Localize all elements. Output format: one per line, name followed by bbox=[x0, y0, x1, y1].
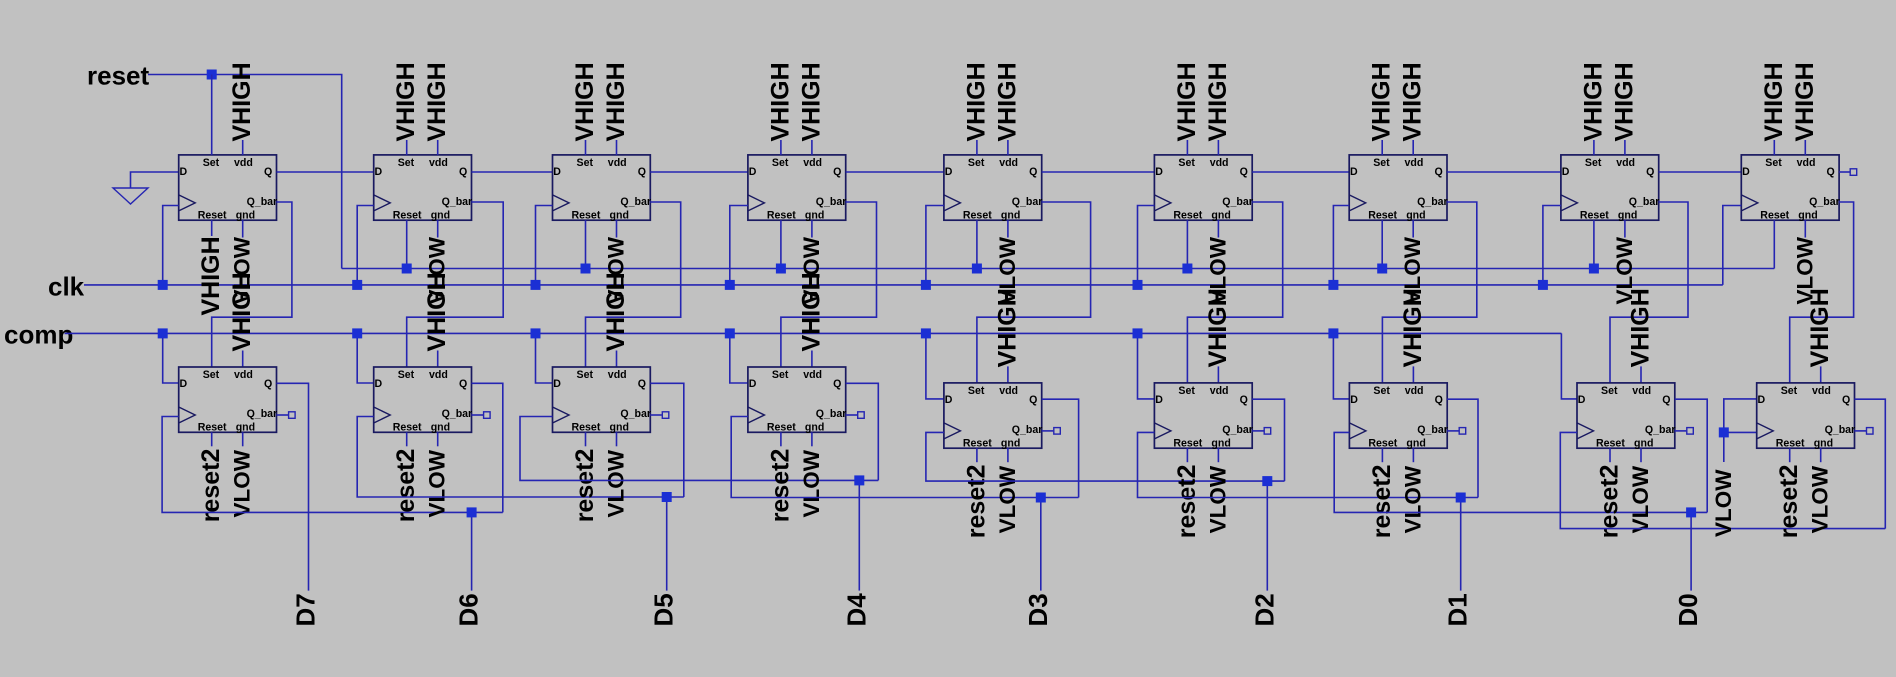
wire U3 Q to U4 D bbox=[650, 171, 748, 173]
svg-text:VHIGH: VHIGH bbox=[1610, 62, 1638, 141]
unconnected pin marker U15 Q_bar bbox=[1264, 428, 1271, 435]
junction reset/U7 bbox=[1377, 264, 1387, 274]
svg-text:gnd: gnd bbox=[1406, 437, 1425, 449]
wire U7 Q_bar to U16 Set bbox=[1382, 202, 1476, 383]
wire U16 vdd pin stub to VHIGH bbox=[1412, 366, 1414, 383]
wire output D0 drop bbox=[1690, 512, 1692, 590]
wire U17 Q_bar stub (unconnected) bbox=[1675, 430, 1687, 432]
svg-text:gnd: gnd bbox=[1634, 437, 1653, 449]
U13 (bottom row, bit 4) pin labels Set vdd D Q Q_bar Reset gnd bbox=[749, 369, 847, 433]
junction clk/U1 bbox=[158, 280, 168, 290]
svg-text:Set: Set bbox=[577, 157, 594, 169]
wire U8 Q to U9 D bbox=[1659, 171, 1742, 173]
svg-text:Q: Q bbox=[1029, 166, 1037, 178]
flip-flop U17 (bottom row, bit 0) bbox=[1577, 383, 1675, 448]
svg-text:gnd: gnd bbox=[431, 209, 450, 221]
wire U4 vdd pin stub to VHIGH bbox=[811, 140, 813, 155]
wire U13 vdd pin stub to VHIGH bbox=[811, 351, 813, 368]
svg-text:Q_bar: Q_bar bbox=[620, 408, 651, 420]
wire U8 gnd pin stub to VLOW bbox=[1624, 220, 1626, 237]
svg-text:VHIGH: VHIGH bbox=[993, 288, 1021, 367]
wire U18 vdd pin stub to VHIGH bbox=[1820, 366, 1822, 383]
svg-text:Q_bar: Q_bar bbox=[1645, 424, 1676, 436]
svg-text:reset2: reset2 bbox=[392, 449, 420, 523]
svg-text:gnd: gnd bbox=[1814, 437, 1833, 449]
svg-text:vdd: vdd bbox=[999, 385, 1018, 397]
wire U18 D tied to clock pin and VLOW bbox=[1724, 399, 1757, 462]
flip-flop U18 (bottom row, bit end) bbox=[1757, 383, 1855, 448]
svg-text:Q_bar: Q_bar bbox=[620, 196, 651, 208]
svg-text:Reset: Reset bbox=[198, 421, 227, 433]
svg-text:VHIGH: VHIGH bbox=[962, 62, 990, 141]
wire U15 vdd pin stub to VHIGH bbox=[1217, 366, 1219, 383]
U14 (bottom row, bit 3) pin labels Set vdd D Q Q_bar Reset gnd bbox=[945, 385, 1043, 449]
svg-text:Q: Q bbox=[1646, 166, 1654, 178]
svg-text:Set: Set bbox=[968, 385, 985, 397]
svg-text:Q_bar: Q_bar bbox=[816, 196, 847, 208]
svg-text:vdd: vdd bbox=[1405, 157, 1424, 169]
wire U7 Reset pin to reset rail bbox=[1381, 220, 1383, 268]
svg-text:vdd: vdd bbox=[608, 157, 627, 169]
svg-text:Set: Set bbox=[398, 369, 415, 381]
svg-text:vdd: vdd bbox=[234, 157, 253, 169]
wire U14 gnd pin stub to VLOW bbox=[1007, 448, 1009, 462]
svg-text:vdd: vdd bbox=[1210, 157, 1229, 169]
wire U9 Set pin stub to VHIGH bbox=[1773, 140, 1775, 155]
flip-flop U16 (bottom row, bit 1) bbox=[1349, 383, 1447, 448]
wire U15 clock pin to ripple rail from U16 Q bbox=[1138, 432, 1479, 497]
svg-text:gnd: gnd bbox=[431, 421, 450, 433]
svg-text:D: D bbox=[1562, 166, 1570, 178]
wire U15 Q down to ripple rail bbox=[1252, 399, 1284, 481]
svg-text:gnd: gnd bbox=[1798, 209, 1817, 221]
junction reset/Set1 bbox=[207, 70, 217, 80]
wire comp rail to U11 D bbox=[357, 333, 374, 383]
wire U15 Reset pin stub to reset2 bbox=[1186, 448, 1188, 462]
junction comp/U12 bbox=[531, 328, 541, 338]
svg-text:D: D bbox=[945, 394, 953, 406]
svg-text:VHIGH: VHIGH bbox=[228, 62, 256, 141]
svg-text:gnd: gnd bbox=[1001, 437, 1020, 449]
svg-text:gnd: gnd bbox=[236, 209, 255, 221]
svg-text:Reset: Reset bbox=[1760, 209, 1789, 221]
wire U4 Q to U5 D bbox=[846, 171, 944, 173]
svg-text:Q: Q bbox=[638, 166, 646, 178]
svg-text:Q: Q bbox=[833, 378, 841, 390]
svg-text:gnd: gnd bbox=[236, 421, 255, 433]
junction clk/U3 bbox=[531, 280, 541, 290]
junction reset/U5 bbox=[972, 264, 982, 274]
svg-text:Set: Set bbox=[772, 157, 789, 169]
wire U17 Reset pin stub to reset2 bbox=[1609, 448, 1611, 462]
svg-text:Q_bar: Q_bar bbox=[816, 408, 847, 420]
svg-text:Reset: Reset bbox=[767, 421, 796, 433]
wire U10 Q to output D7 bbox=[277, 383, 309, 590]
svg-text:Reset: Reset bbox=[963, 437, 992, 449]
svg-text:Set: Set bbox=[203, 369, 220, 381]
wire U5 vdd pin stub to VHIGH bbox=[1007, 140, 1009, 155]
svg-text:Set: Set bbox=[1765, 157, 1782, 169]
svg-text:vdd: vdd bbox=[608, 369, 627, 381]
junction comp/U14 bbox=[921, 328, 931, 338]
wire U8 vdd pin stub to VHIGH bbox=[1624, 140, 1626, 155]
flip-flop U2 (top row, bit 6) bbox=[374, 155, 472, 220]
flip-flop U8 (top row, bit 0) bbox=[1561, 155, 1659, 220]
flip-flop U10 (bottom row, bit 7) bbox=[179, 367, 277, 432]
junction clk/U7 bbox=[1328, 280, 1338, 290]
svg-text:reset2: reset2 bbox=[1368, 465, 1396, 539]
svg-text:Reset: Reset bbox=[963, 209, 992, 221]
svg-text:VHIGH: VHIGH bbox=[1399, 288, 1427, 367]
svg-text:D: D bbox=[945, 166, 953, 178]
wire U4 Set pin stub to VHIGH bbox=[780, 140, 782, 155]
junction clk/U5 bbox=[921, 280, 931, 290]
wire U7 Q to U8 D bbox=[1447, 171, 1561, 173]
wire U7 Set pin stub to VHIGH bbox=[1381, 140, 1383, 155]
svg-text:D: D bbox=[1155, 166, 1163, 178]
wire U1 Reset pin stub to VHIGH bbox=[211, 220, 213, 236]
flip-flop U1 (top row, bit 7) bbox=[179, 155, 277, 220]
wire output D5 drop bbox=[666, 497, 668, 591]
wire U4 gnd pin stub to VLOW bbox=[811, 220, 813, 237]
wire U12 clock pin to ripple rail from U13 Q bbox=[520, 417, 878, 481]
svg-text:vdd: vdd bbox=[1632, 385, 1651, 397]
U11 (bottom row, bit 6) pin labels Set vdd D Q Q_bar Reset gnd bbox=[375, 369, 473, 433]
svg-text:VHIGH: VHIGH bbox=[1627, 288, 1655, 367]
unconnected pin marker U16 Q_bar bbox=[1459, 428, 1466, 435]
wire output D4 drop bbox=[858, 480, 860, 590]
svg-text:D6: D6 bbox=[454, 593, 484, 626]
wire U16 Q_bar stub (unconnected) bbox=[1447, 430, 1459, 432]
flip-flop U15 (bottom row, bit 2) bbox=[1154, 383, 1252, 448]
wire U8 Reset pin to reset rail bbox=[1593, 220, 1595, 268]
svg-text:VLOW: VLOW bbox=[1205, 465, 1230, 533]
wire U10 gnd pin stub to VLOW bbox=[242, 432, 244, 446]
flip-flop U4 (top row, bit 4) bbox=[748, 155, 846, 220]
svg-text:D: D bbox=[375, 166, 383, 178]
flip-flop U12 (bottom row, bit 5) bbox=[553, 367, 651, 432]
svg-text:gnd: gnd bbox=[610, 209, 629, 221]
svg-text:Set: Set bbox=[968, 157, 985, 169]
wire U8 Set pin stub to VHIGH bbox=[1593, 140, 1595, 155]
svg-text:Q_bar: Q_bar bbox=[247, 196, 278, 208]
svg-text:Reset: Reset bbox=[1368, 437, 1397, 449]
U8 (top row, bit 0) pin labels Set vdd D Q Q_bar Reset gnd bbox=[1562, 157, 1660, 221]
unconnected pin marker U11 Q_bar bbox=[484, 412, 491, 419]
wire U15 Q_bar stub (unconnected) bbox=[1252, 430, 1264, 432]
svg-text:VHIGH: VHIGH bbox=[1368, 62, 1396, 141]
junction comp/U11 bbox=[352, 328, 362, 338]
wire U14 Reset pin stub to reset2 bbox=[976, 448, 978, 462]
svg-text:D: D bbox=[749, 166, 757, 178]
wire U5 Q_bar to U14 Set bbox=[977, 202, 1091, 383]
U12 (bottom row, bit 5) pin labels Set vdd D Q Q_bar Reset gnd bbox=[553, 369, 651, 433]
svg-text:D: D bbox=[180, 378, 188, 390]
svg-text:gnd: gnd bbox=[1001, 209, 1020, 221]
wire U1 Set pin up to reset net bbox=[211, 75, 213, 155]
svg-text:VHIGH: VHIGH bbox=[1760, 62, 1788, 141]
wire U6 Set pin stub to VHIGH bbox=[1186, 140, 1188, 155]
svg-text:Set: Set bbox=[772, 369, 789, 381]
junction clk/U4 bbox=[725, 280, 735, 290]
U16 (bottom row, bit 1) pin labels Set vdd D Q Q_bar Reset gnd bbox=[1350, 385, 1448, 449]
svg-text:Set: Set bbox=[1373, 385, 1390, 397]
svg-text:VHIGH: VHIGH bbox=[423, 272, 451, 351]
svg-text:vdd: vdd bbox=[429, 157, 448, 169]
svg-text:Q_bar: Q_bar bbox=[1417, 196, 1448, 208]
svg-text:Q: Q bbox=[1662, 394, 1670, 406]
svg-text:D: D bbox=[1578, 394, 1586, 406]
wire U18 Q_bar stub (unconnected) bbox=[1855, 430, 1867, 432]
wire U10 clock pin to ripple rail from U11 Q bbox=[162, 417, 503, 513]
wire U18 Q down to ripple rail bbox=[1855, 399, 1886, 528]
svg-text:Q_bar: Q_bar bbox=[1012, 196, 1043, 208]
svg-text:vdd: vdd bbox=[1405, 385, 1424, 397]
svg-text:VHIGH: VHIGH bbox=[1204, 288, 1232, 367]
svg-text:vdd: vdd bbox=[429, 369, 448, 381]
wire U4 Reset pin to reset rail bbox=[780, 220, 782, 268]
wire U9 gnd pin stub to VLOW bbox=[1804, 220, 1806, 237]
wire U7 gnd pin stub to VLOW bbox=[1412, 220, 1414, 237]
svg-text:D: D bbox=[553, 378, 561, 390]
svg-text:reset2: reset2 bbox=[962, 465, 990, 539]
U7 (top row, bit 1) pin labels Set vdd D Q Q_bar Reset gnd bbox=[1350, 157, 1448, 221]
wire U5 gnd pin stub to VLOW bbox=[1007, 220, 1009, 237]
junction D0 bbox=[1686, 507, 1696, 517]
junction D1 bbox=[1456, 493, 1466, 503]
junction clk/U2 bbox=[352, 280, 362, 290]
svg-text:VHIGH: VHIGH bbox=[392, 62, 420, 141]
wire clk rail to U7 clock pin bbox=[1333, 206, 1349, 285]
svg-text:Q_bar: Q_bar bbox=[442, 408, 473, 420]
svg-text:VLOW: VLOW bbox=[604, 449, 629, 517]
svg-text:Set: Set bbox=[398, 157, 415, 169]
svg-text:D: D bbox=[1155, 394, 1163, 406]
svg-text:Q_bar: Q_bar bbox=[442, 196, 473, 208]
svg-text:reset2: reset2 bbox=[571, 449, 599, 523]
junction comp/U15 bbox=[1133, 328, 1143, 338]
wire U14 Q down to ripple rail bbox=[1042, 399, 1079, 497]
U15 (bottom row, bit 2) pin labels Set vdd D Q Q_bar Reset gnd bbox=[1155, 385, 1253, 449]
junction reset/U2 bbox=[402, 264, 412, 274]
wire U13 gnd pin stub to VLOW bbox=[811, 432, 813, 446]
svg-text:VHIGH: VHIGH bbox=[797, 62, 825, 141]
junction comp/U13 bbox=[725, 328, 735, 338]
wire clk rail to U8 clock pin bbox=[1543, 206, 1561, 285]
wire U11 Q_bar stub (unconnected) bbox=[472, 414, 484, 416]
wire clk rail to U9 clock pin bbox=[1723, 206, 1742, 285]
wire U2 vdd pin stub to VHIGH bbox=[437, 140, 439, 155]
wire U12 Q down to ripple rail bbox=[650, 383, 684, 497]
svg-text:VHIGH: VHIGH bbox=[1204, 62, 1232, 141]
wire U9 Reset pin to reset rail end bbox=[1773, 220, 1775, 268]
junction reset/U6 bbox=[1182, 264, 1192, 274]
svg-text:VHIGH: VHIGH bbox=[766, 62, 794, 141]
svg-text:Reset: Reset bbox=[767, 209, 796, 221]
svg-text:VHIGH: VHIGH bbox=[423, 62, 451, 141]
svg-text:D2: D2 bbox=[1249, 593, 1279, 626]
flip-flop U7 (top row, bit 1) bbox=[1349, 155, 1447, 220]
wire U13 clock pin to ripple rail from U14 Q bbox=[731, 417, 1078, 498]
svg-text:VLOW: VLOW bbox=[1628, 465, 1653, 533]
wire U5 Reset pin to reset rail bbox=[976, 220, 978, 268]
svg-text:reset2: reset2 bbox=[766, 449, 794, 523]
wire U9 vdd pin stub to VHIGH bbox=[1804, 140, 1806, 155]
wire U2 gnd pin stub to VLOW bbox=[437, 220, 439, 237]
wire U2 Q to U3 D bbox=[472, 171, 553, 173]
wire clk rail to U1 clock pin bbox=[163, 206, 179, 285]
wire U3 gnd pin stub to VLOW bbox=[616, 220, 618, 237]
wire U8 Q_bar to U17 Set bbox=[1610, 202, 1688, 383]
svg-text:D5: D5 bbox=[649, 593, 679, 626]
svg-text:VHIGH: VHIGH bbox=[1579, 62, 1607, 141]
wire U14 Q_bar stub (unconnected) bbox=[1042, 430, 1054, 432]
unconnected pin marker U13 Q_bar bbox=[858, 412, 865, 419]
svg-text:VLOW: VLOW bbox=[230, 449, 255, 517]
svg-text:D: D bbox=[1350, 394, 1358, 406]
wire U4 Q_bar to U13 Set bbox=[781, 202, 877, 367]
svg-text:Q_bar: Q_bar bbox=[1825, 424, 1856, 436]
junction D4 bbox=[854, 475, 864, 485]
svg-text:VHIGH: VHIGH bbox=[571, 62, 599, 141]
wire comp rail to U10 D bbox=[163, 333, 179, 383]
svg-text:Q: Q bbox=[264, 378, 272, 390]
junction D6 bbox=[467, 507, 477, 517]
wire U14 clock pin to ripple rail from U15 Q bbox=[926, 432, 1285, 481]
wire comp rail bbox=[65, 332, 1562, 334]
wire U5 Q to U6 D bbox=[1042, 171, 1155, 173]
svg-text:Set: Set bbox=[1601, 385, 1618, 397]
svg-text:Q_bar: Q_bar bbox=[1222, 196, 1253, 208]
wire U17 vdd pin stub to VHIGH bbox=[1640, 366, 1642, 383]
flip-flop U11 (bottom row, bit 6) bbox=[374, 367, 472, 432]
U18 (bottom row, bit end) pin labels Set vdd D Q Q_bar Reset gnd bbox=[1758, 385, 1856, 449]
svg-text:reset2: reset2 bbox=[1173, 465, 1201, 539]
svg-text:VHIGH: VHIGH bbox=[1791, 62, 1819, 141]
wire U3 Set pin stub to VHIGH bbox=[585, 140, 587, 155]
flip-flop U6 (top row, bit 2) bbox=[1154, 155, 1252, 220]
svg-text:VLOW: VLOW bbox=[1711, 469, 1736, 537]
svg-text:vdd: vdd bbox=[1797, 157, 1816, 169]
unconnected pin marker U9 Q bbox=[1850, 169, 1857, 176]
svg-text:VLOW: VLOW bbox=[1400, 465, 1425, 533]
svg-text:Q: Q bbox=[833, 166, 841, 178]
wire U12 vdd pin stub to VHIGH bbox=[616, 351, 618, 368]
svg-text:vdd: vdd bbox=[1616, 157, 1635, 169]
svg-text:Reset: Reset bbox=[1173, 437, 1202, 449]
svg-text:VHIGH: VHIGH bbox=[602, 272, 630, 351]
wire U10 vdd pin stub to VHIGH bbox=[242, 351, 244, 368]
svg-text:Q: Q bbox=[1842, 394, 1850, 406]
svg-text:D: D bbox=[180, 166, 188, 178]
flip-flop U14 (bottom row, bit 3) bbox=[944, 383, 1042, 448]
svg-text:reset2: reset2 bbox=[197, 449, 225, 523]
svg-text:gnd: gnd bbox=[1211, 209, 1230, 221]
wire U10 Reset pin stub to reset2 bbox=[211, 432, 213, 446]
wire U12 gnd pin stub to VLOW bbox=[616, 432, 618, 446]
wire comp rail to U15 D bbox=[1138, 333, 1155, 399]
svg-text:Q: Q bbox=[1240, 166, 1248, 178]
wire reset rail bbox=[342, 268, 1775, 270]
unconnected pin marker U17 Q_bar bbox=[1687, 428, 1694, 435]
svg-text:Reset: Reset bbox=[198, 209, 227, 221]
svg-text:Q_bar: Q_bar bbox=[1417, 424, 1448, 436]
junction clk/U6 bbox=[1133, 280, 1143, 290]
svg-text:clk: clk bbox=[48, 272, 85, 302]
svg-text:reset2: reset2 bbox=[1596, 465, 1624, 539]
wire FF1 D input to triangle symbol bbox=[131, 172, 179, 188]
wire output D1 drop bbox=[1460, 498, 1462, 591]
wire clk rail to U6 clock pin bbox=[1138, 206, 1155, 285]
wire reset: label to FF1 Set riser and down to reset rail bbox=[148, 75, 342, 269]
svg-text:VHIGH: VHIGH bbox=[1399, 62, 1427, 141]
svg-text:Q: Q bbox=[1434, 166, 1442, 178]
junction D5 bbox=[662, 492, 672, 502]
svg-text:VLOW: VLOW bbox=[1808, 465, 1833, 533]
svg-text:Q: Q bbox=[1435, 394, 1443, 406]
svg-text:vdd: vdd bbox=[1812, 385, 1831, 397]
wire U11 clock pin to ripple rail from U12 Q bbox=[357, 417, 684, 498]
junction reset/U3 bbox=[581, 264, 591, 274]
wire U3 vdd pin stub to VHIGH bbox=[616, 140, 618, 155]
svg-text:D: D bbox=[375, 378, 383, 390]
wire U17 clock pin to ripple rail from U18 Q bbox=[1560, 432, 1885, 528]
wire U16 Reset pin stub to reset2 bbox=[1381, 448, 1383, 462]
unconnected pin marker U10 Q_bar bbox=[289, 412, 296, 419]
svg-text:Set: Set bbox=[1373, 157, 1390, 169]
svg-text:Q_bar: Q_bar bbox=[1629, 196, 1660, 208]
svg-text:gnd: gnd bbox=[610, 421, 629, 433]
wire output D3 drop bbox=[1040, 498, 1042, 591]
wire U1 Q to U2 D bbox=[277, 171, 374, 173]
svg-text:gnd: gnd bbox=[1211, 437, 1230, 449]
svg-text:Q_bar: Q_bar bbox=[1012, 424, 1043, 436]
wire U9 Q stub (unconnected) bbox=[1839, 171, 1849, 173]
svg-text:VHIGH: VHIGH bbox=[602, 62, 630, 141]
wire U6 gnd pin stub to VLOW bbox=[1217, 220, 1219, 237]
flip-flop U9 (top row, bit end) bbox=[1741, 155, 1839, 220]
svg-text:vdd: vdd bbox=[1210, 385, 1229, 397]
wire output D2 drop bbox=[1266, 481, 1268, 590]
svg-text:Set: Set bbox=[577, 369, 594, 381]
wire U10 Q_bar stub (unconnected) bbox=[277, 414, 289, 416]
wire U1 vdd pin stub to VHIGH bbox=[242, 140, 244, 155]
svg-text:Q: Q bbox=[1827, 166, 1835, 178]
svg-text:D7: D7 bbox=[291, 593, 321, 626]
svg-text:reset: reset bbox=[87, 61, 149, 91]
U4 (top row, bit 4) pin labels Set vdd D Q Q_bar Reset gnd bbox=[749, 157, 847, 221]
wire U13 Reset pin stub to reset2 bbox=[780, 432, 782, 446]
input terminal triangle (open, pointing down) bbox=[113, 188, 148, 204]
wire comp rail to U16 D bbox=[1333, 333, 1349, 399]
wire U3 Q_bar to U12 Set bbox=[586, 202, 681, 367]
wire U12 Q_bar stub (unconnected) bbox=[650, 414, 662, 416]
wire U2 Set pin stub to VHIGH bbox=[406, 140, 408, 155]
wire U5 Set pin stub to VHIGH bbox=[976, 140, 978, 155]
svg-text:Reset: Reset bbox=[393, 209, 422, 221]
junction D3 bbox=[1036, 493, 1046, 503]
svg-text:Reset: Reset bbox=[1580, 209, 1609, 221]
wire output D6 drop bbox=[471, 512, 473, 590]
flip-flop U13 (bottom row, bit 4) bbox=[748, 367, 846, 432]
wire U18 Reset pin stub to reset2 bbox=[1789, 448, 1791, 462]
svg-text:Reset: Reset bbox=[572, 209, 601, 221]
wire clk rail bbox=[84, 284, 1723, 286]
svg-text:Set: Set bbox=[1781, 385, 1798, 397]
svg-text:Reset: Reset bbox=[1776, 437, 1805, 449]
wire clk rail to U5 clock pin bbox=[926, 206, 944, 285]
svg-text:D0: D0 bbox=[1673, 593, 1703, 626]
